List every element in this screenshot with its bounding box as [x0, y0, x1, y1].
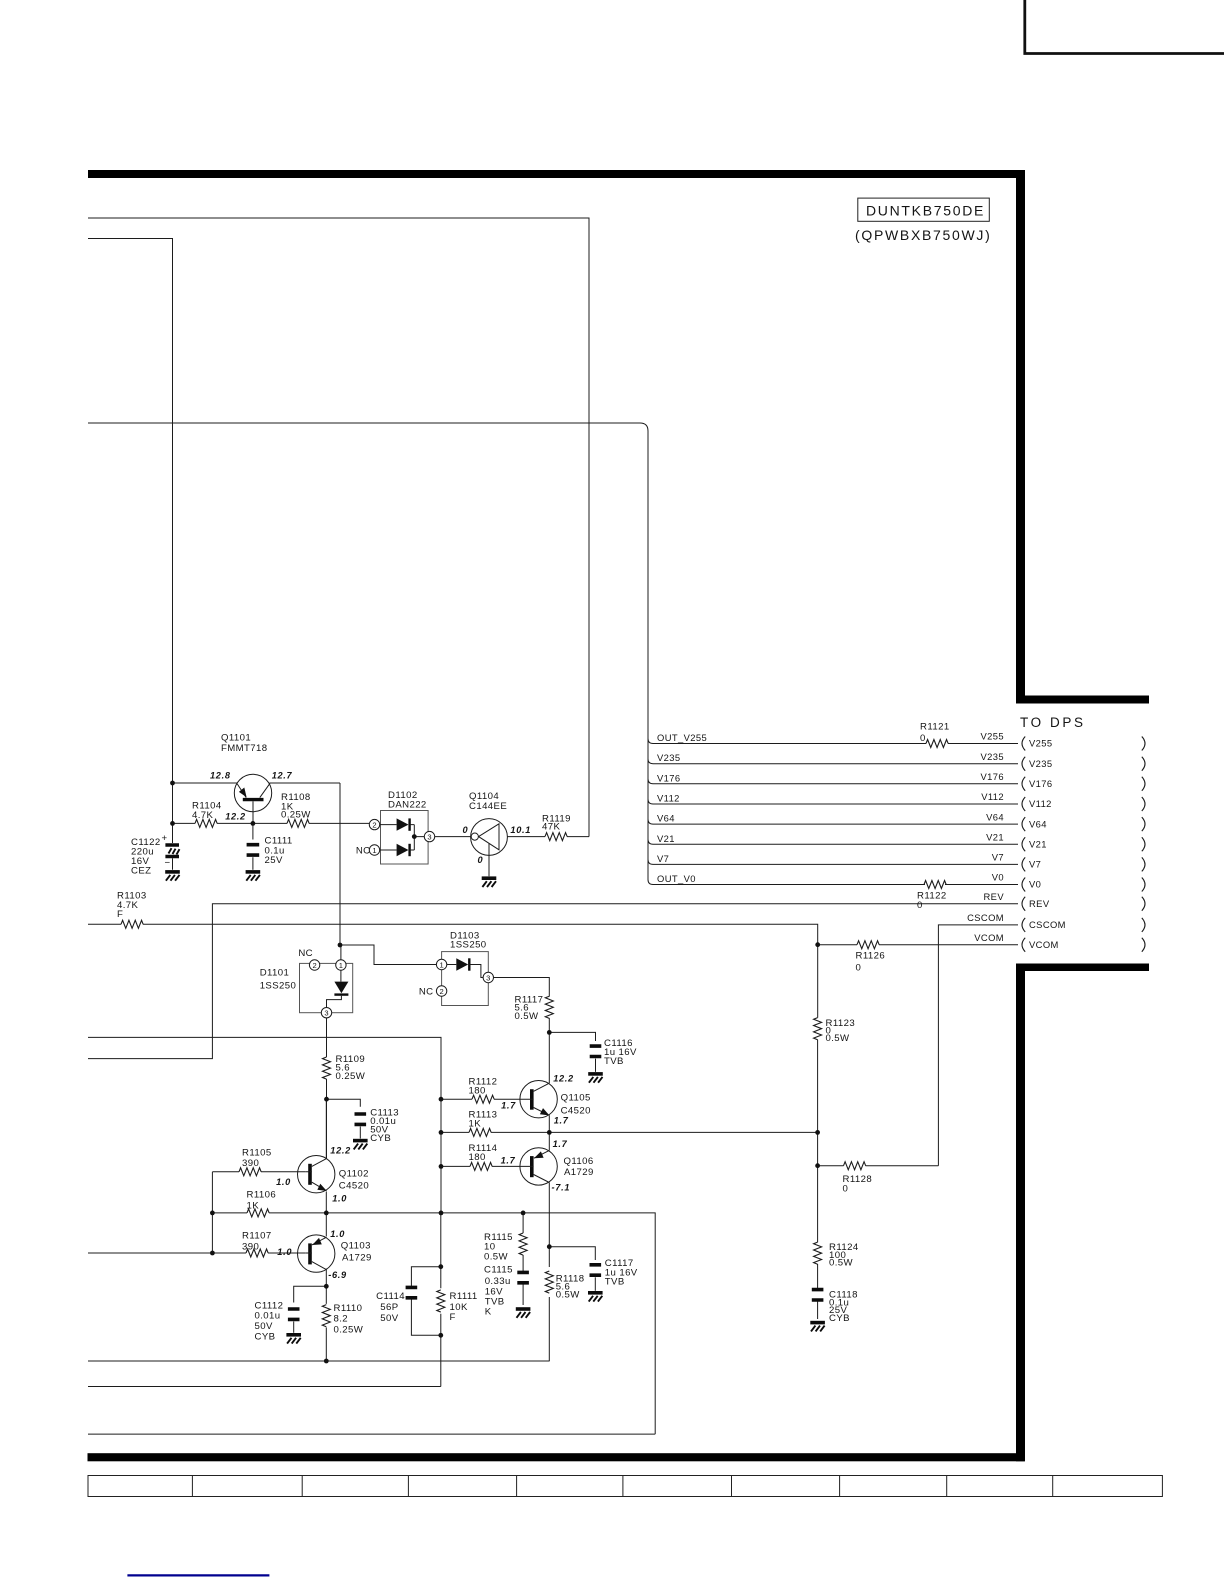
border: bottom thick bar — [88, 1453, 1025, 1461]
svg-text:V21: V21 — [1029, 839, 1047, 850]
svg-text:V112: V112 — [981, 791, 1004, 802]
svg-text:50V: 50V — [380, 1313, 398, 1324]
svg-text:C1114: C1114 — [376, 1291, 405, 1302]
wire C1114/R1111 bottom node — [411, 1298, 440, 1387]
border: top thick bar — [88, 170, 1025, 178]
svg-text:3: 3 — [486, 973, 490, 982]
resistor R1110 — [322, 1303, 363, 1336]
svg-text:0: 0 — [920, 733, 926, 744]
connector pin V21 — [1022, 837, 1145, 851]
resistor R1117 — [515, 995, 554, 1023]
ground (C1122) — [165, 872, 180, 881]
resistor R1105 — [239, 1148, 272, 1176]
svg-text:2: 2 — [312, 961, 316, 970]
svg-text:CYB: CYB — [255, 1332, 276, 1343]
wire Q1105 emitter junction — [548, 1115, 550, 1132]
ground (C1111) — [246, 872, 261, 881]
capacitor C1112 — [255, 1301, 300, 1343]
svg-text:Q1105: Q1105 — [561, 1093, 591, 1104]
wire D1101 pin1 stub — [340, 945, 342, 960]
junction: R1110 bottom node — [324, 1359, 329, 1364]
svg-text:R1107: R1107 — [242, 1231, 272, 1242]
svg-text:V0: V0 — [992, 872, 1004, 883]
junction: R1111 top node — [439, 1211, 444, 1216]
resistor R1107 — [242, 1231, 272, 1258]
svg-text:V21: V21 — [986, 832, 1004, 843]
svg-text:0.33u: 0.33u — [485, 1276, 511, 1287]
junction: R1109/C1113 node — [324, 1097, 329, 1102]
svg-text:0.5W: 0.5W — [826, 1033, 851, 1044]
svg-text:F: F — [450, 1312, 456, 1323]
wire node through R1118 to bottom rail — [548, 1247, 550, 1361]
svg-text:12.8: 12.8 — [210, 771, 231, 781]
svg-text:+: + — [161, 833, 167, 844]
svg-text:OUT_V0: OUT_V0 — [657, 873, 696, 884]
wire Q1106 collector drop — [548, 1183, 550, 1247]
wire R1106 long row — [212, 1213, 655, 1434]
svg-text:NC: NC — [419, 987, 434, 998]
diode D1102 (DAN222 dual) — [356, 790, 435, 864]
svg-text:0.25W: 0.25W — [334, 1325, 364, 1336]
wire R1113 long row to right rail — [441, 1131, 818, 1133]
svg-text:V0: V0 — [1029, 879, 1041, 890]
connector pin CSCOM — [1022, 918, 1145, 932]
svg-text:R1105: R1105 — [242, 1148, 272, 1159]
svg-text:V7: V7 — [657, 853, 669, 864]
svg-text:1.0: 1.0 — [330, 1229, 345, 1239]
svg-text:0: 0 — [478, 855, 484, 865]
svg-text:1.7: 1.7 — [554, 1116, 569, 1126]
svg-text:R1110: R1110 — [334, 1303, 363, 1314]
resistor R1119 — [542, 814, 571, 841]
ground (C1117) — [588, 1293, 603, 1302]
svg-text:R1106: R1106 — [247, 1190, 277, 1201]
svg-text:3: 3 — [427, 832, 431, 841]
wire V0 to connector after R1122 — [945, 884, 1018, 886]
resistor R1108 — [281, 792, 311, 827]
resistor R1114 — [469, 1143, 498, 1170]
capacitor C1116 — [590, 1038, 637, 1072]
svg-text:1.7: 1.7 — [501, 1101, 516, 1111]
resistor R1128 — [843, 1162, 873, 1195]
footer revision table — [88, 1476, 1162, 1497]
resistor R1103 — [117, 891, 147, 929]
svg-text:8.2: 8.2 — [334, 1314, 349, 1325]
svg-text:V176: V176 — [1029, 778, 1053, 789]
connector pin REV — [1022, 897, 1145, 911]
svg-text:REV: REV — [1029, 898, 1050, 909]
svg-text:1SS250: 1SS250 — [260, 981, 297, 992]
wire CSCOM/R1103 line to VCOM node — [88, 924, 818, 944]
ground (C1118) — [810, 1323, 825, 1332]
svg-text:56P: 56P — [380, 1302, 398, 1313]
svg-text:F: F — [117, 909, 123, 920]
wire: top feedback line (R1119 output to left edge) — [88, 218, 589, 837]
junction: C1114 top node — [438, 1264, 443, 1269]
wire D1101 pin3 to R1109 — [326, 1018, 328, 1057]
wire Q1106 emitter junction — [548, 1132, 550, 1150]
capacitor C1114 — [376, 1287, 417, 1324]
junction: R1114 left node — [439, 1164, 444, 1169]
junction: R1113 left node — [439, 1130, 444, 1135]
connector pin V7 — [1022, 857, 1145, 871]
wire R1105 row — [212, 1171, 305, 1173]
wire V176 branch — [653, 783, 1018, 785]
svg-text:A1729: A1729 — [564, 1167, 594, 1178]
svg-text:TVB: TVB — [604, 1056, 624, 1067]
svg-text:V64: V64 — [986, 811, 1004, 822]
connector pin V64 — [1022, 817, 1145, 831]
resistor R1111 — [437, 1290, 478, 1323]
svg-text:2: 2 — [439, 987, 443, 996]
transistor Q1106 (A1729 PNP) — [520, 1148, 594, 1185]
transistor Q1104 (C144EE) — [435, 791, 589, 876]
svg-text:NC: NC — [298, 948, 313, 959]
svg-text:12.2: 12.2 — [225, 811, 246, 821]
svg-text:C144EE: C144EE — [469, 801, 507, 812]
svg-text:CSCOM: CSCOM — [967, 912, 1004, 923]
svg-text:0.25W: 0.25W — [281, 810, 311, 821]
connector pin V112 — [1022, 797, 1145, 811]
transistor Q1103 (A1729 PNP) — [298, 1235, 372, 1272]
svg-text:1: 1 — [372, 846, 376, 855]
wire R1117 node to C1116 — [549, 1032, 595, 1041]
wire right rail VCOM node to R1123 — [817, 945, 819, 1319]
border: right thick vertical upper — [1016, 170, 1025, 704]
svg-text:0: 0 — [917, 900, 923, 911]
svg-text:3: 3 — [324, 1009, 328, 1018]
junction: Q1103 collector node — [324, 1284, 329, 1289]
border: thick stub below connector — [1016, 964, 1149, 972]
resistor R1106 — [247, 1190, 277, 1217]
connector pin V0 — [1022, 878, 1145, 892]
svg-text:1.0: 1.0 — [277, 1247, 292, 1257]
svg-text:V112: V112 — [1029, 798, 1052, 809]
wire VCOM line — [818, 944, 1018, 946]
junction: right rail R1113 node — [815, 1130, 820, 1135]
svg-text:FMMT718: FMMT718 — [221, 743, 268, 754]
svg-text:-6.9: -6.9 — [328, 1270, 347, 1280]
wire bus: left input to connector branches — [88, 423, 925, 885]
svg-text:VCOM: VCOM — [974, 932, 1004, 943]
svg-text:TVB: TVB — [605, 1277, 625, 1288]
svg-text:0.5W: 0.5W — [515, 1011, 540, 1022]
svg-text:V255: V255 — [981, 731, 1005, 742]
wire CSCOM pin stub — [938, 925, 1018, 1166]
junction: D1102 common cathode — [412, 834, 417, 839]
svg-text:1.0: 1.0 — [276, 1177, 291, 1187]
wire Q1103 collector node — [325, 1269, 327, 1287]
svg-text:K: K — [485, 1307, 492, 1318]
svg-text:1: 1 — [439, 960, 443, 969]
resistor R1104 — [192, 801, 222, 828]
wire V255 branch — [653, 743, 1018, 745]
svg-text:4.7K: 4.7K — [192, 810, 214, 821]
wire node down to Q1102 collector — [326, 1099, 328, 1158]
svg-text:Q1106: Q1106 — [564, 1156, 594, 1167]
wire jog to D1103 pin1 — [340, 945, 436, 965]
footer blue underline — [127, 1574, 269, 1576]
title box DUNTKB750DE — [858, 198, 990, 221]
capacitor C1122 (electrolytic) — [131, 833, 180, 877]
wire C1114/R1111 top node — [411, 1213, 440, 1288]
svg-text:2: 2 — [372, 820, 376, 829]
svg-text:180: 180 — [469, 1152, 486, 1163]
svg-text:Q1102: Q1102 — [339, 1169, 369, 1180]
ground (C1112) — [286, 1335, 301, 1344]
junction: D1103 feed node — [338, 943, 343, 948]
diode D1101 (1SS250) — [260, 948, 353, 1018]
svg-text:0: 0 — [463, 825, 469, 835]
svg-text:12.2: 12.2 — [553, 1074, 574, 1084]
svg-text:DUNTKB750DE: DUNTKB750DE — [866, 203, 985, 219]
svg-text:0.5W: 0.5W — [556, 1290, 581, 1301]
svg-text:CSCOM: CSCOM — [1029, 919, 1066, 930]
svg-text:TO DPS: TO DPS — [1020, 715, 1086, 730]
junction: R1112 left node — [439, 1097, 444, 1102]
svg-text:Q1103: Q1103 — [341, 1241, 371, 1252]
sheet corner box top-right — [1025, 0, 1224, 54]
ground (C1116) — [588, 1074, 603, 1083]
junction: Q1106 collector node — [547, 1244, 552, 1249]
svg-text:0.5W: 0.5W — [484, 1252, 509, 1263]
wire V64 branch — [653, 823, 1018, 825]
svg-text:CYB: CYB — [829, 1313, 850, 1324]
svg-text:1SS250: 1SS250 — [450, 940, 487, 951]
svg-text:R1121: R1121 — [920, 722, 950, 733]
wire R1115/C1115 column — [522, 1213, 524, 1305]
resistor R1109 — [323, 1054, 366, 1082]
svg-text:12.2: 12.2 — [330, 1145, 351, 1155]
junction: Q1102 emitter node — [324, 1211, 329, 1216]
wire R1112 row — [441, 1098, 530, 1100]
wire V21 branch — [653, 843, 1018, 845]
resistor R1121 — [920, 722, 950, 748]
svg-text:12.7: 12.7 — [272, 771, 293, 781]
svg-text:V176: V176 — [981, 771, 1005, 782]
resistor R1118 — [545, 1271, 584, 1301]
transistor Q1102 (C4520 NPN) — [298, 1156, 370, 1193]
wire R1109 bottom to node — [326, 1079, 328, 1099]
svg-text:V235: V235 — [981, 751, 1005, 762]
svg-text:V235: V235 — [657, 752, 681, 763]
wire bottom rail 1 (to R1118) — [88, 1360, 550, 1362]
capacitor C1118 — [812, 1290, 858, 1325]
svg-text:NC: NC — [356, 846, 371, 857]
wire Q1102 collector riser — [325, 1099, 327, 1158]
resistor R1122 — [917, 881, 947, 912]
svg-text:CEZ: CEZ — [131, 866, 151, 877]
svg-text:V64: V64 — [657, 813, 675, 824]
connector pin V235 — [1022, 757, 1145, 771]
svg-text:OUT_V255: OUT_V255 — [657, 732, 707, 743]
svg-text:V235: V235 — [1029, 758, 1053, 769]
wire R1105/R1106/R1107 left rail — [211, 1172, 213, 1253]
border: thick stub above connector — [1016, 696, 1149, 704]
junction: R1115 top node — [521, 1211, 526, 1216]
svg-text:0.5W: 0.5W — [829, 1258, 854, 1269]
wire bottom rail 3 (to R1106 row) — [88, 1433, 655, 1435]
border: right thick vertical lower — [1016, 964, 1025, 1462]
wire Q1101 collector drop to D1101/D1103 — [339, 783, 341, 945]
ground (C1115) — [516, 1309, 531, 1318]
svg-text:10.1: 10.1 — [510, 825, 531, 835]
svg-text:C1115: C1115 — [484, 1265, 513, 1276]
svg-text:1K: 1K — [469, 1119, 482, 1130]
ground (Q1104) — [482, 878, 497, 887]
svg-text:1.0: 1.0 — [332, 1194, 347, 1204]
junction: VCOM node — [815, 942, 820, 947]
svg-text:CYB: CYB — [370, 1133, 391, 1144]
svg-text:180: 180 — [469, 1086, 486, 1097]
resistor R1123 — [814, 1018, 855, 1044]
junction: C1114 bottom node — [438, 1333, 443, 1338]
svg-text:V64: V64 — [1029, 818, 1047, 829]
wire D1103 pin3 to R1117 — [494, 978, 550, 1033]
svg-text:V255: V255 — [1029, 738, 1053, 749]
junction: Q1105/Q1106 emitter node — [547, 1130, 552, 1135]
svg-text:R1126: R1126 — [856, 951, 886, 962]
wire R1114 row — [441, 1165, 530, 1167]
resistor R1113 — [469, 1110, 498, 1137]
svg-text:V7: V7 — [1029, 859, 1041, 870]
resistor R1124 — [814, 1242, 859, 1269]
wire Q1102 emitter drop — [325, 1192, 327, 1214]
wire: left input to Q1101 collector rail — [88, 239, 173, 844]
svg-text:390: 390 — [242, 1242, 259, 1253]
svg-text:R1111: R1111 — [450, 1291, 478, 1302]
junction: R1117/C1116 node — [547, 1030, 552, 1035]
svg-text:V176: V176 — [657, 772, 681, 783]
connector pin VCOM — [1022, 938, 1145, 952]
svg-text:390: 390 — [242, 1158, 259, 1169]
wire node to C1112 stub — [294, 1286, 327, 1302]
svg-text:1.7: 1.7 — [553, 1139, 568, 1149]
svg-text:0: 0 — [843, 1184, 849, 1195]
wire bus branch arcs — [648, 739, 653, 865]
svg-text:V21: V21 — [657, 833, 675, 844]
capacitor C1115 — [484, 1265, 529, 1318]
connector pin V255 — [1022, 737, 1145, 751]
connector pin V176 — [1022, 777, 1145, 791]
wire R1117 node to Q1105 collector — [548, 1032, 550, 1083]
svg-text:0.25W: 0.25W — [336, 1071, 366, 1082]
transistor Q1101 (FMMT718 PNP) — [173, 733, 341, 824]
wire node to C1113 stub — [327, 1099, 361, 1107]
svg-text:1.7: 1.7 — [501, 1156, 516, 1166]
transistor Q1105 (C4520 NPN) — [520, 1081, 591, 1118]
svg-text:C4520: C4520 — [339, 1181, 369, 1192]
svg-text:1K: 1K — [247, 1201, 260, 1212]
svg-text:-7.1: -7.1 — [552, 1182, 571, 1192]
wire bottom rail 2 (to R1111) — [88, 1386, 441, 1388]
wire V235 branch — [653, 763, 1018, 765]
junction: R1128 node — [815, 1163, 820, 1168]
junction: R1107 rail node — [210, 1251, 215, 1256]
wire V7 branch — [653, 863, 1018, 865]
svg-text:47K: 47K — [542, 822, 560, 833]
resistor R1115 — [484, 1232, 527, 1263]
wire Q1103 emitter riser — [325, 1213, 327, 1236]
junction: R1104 node — [170, 821, 175, 826]
svg-text:1: 1 — [339, 961, 343, 970]
svg-text:0.01u: 0.01u — [255, 1311, 281, 1322]
svg-text:VCOM: VCOM — [1029, 939, 1059, 950]
resistor R1112 — [469, 1077, 498, 1104]
svg-text:DAN222: DAN222 — [388, 800, 427, 811]
wire node through R1110 to bottom rail — [325, 1286, 327, 1361]
svg-text:A1729: A1729 — [342, 1253, 372, 1264]
wire R1107 row from left edge — [88, 1252, 306, 1254]
capacitor C1117 — [590, 1258, 638, 1291]
svg-text:D1101: D1101 — [260, 968, 290, 979]
svg-text:V112: V112 — [657, 793, 680, 804]
wire REV line — [88, 904, 1018, 1059]
svg-text:V7: V7 — [992, 852, 1004, 863]
svg-text:50V: 50V — [255, 1321, 273, 1332]
junction: R1105 rail node — [210, 1211, 215, 1216]
svg-text:(QPWBXB750WJ): (QPWBXB750WJ) — [855, 227, 991, 243]
svg-text:0: 0 — [856, 963, 862, 974]
diode D1103 (1SS250) — [419, 931, 494, 1006]
junction: Q1101 base node — [251, 821, 256, 826]
wire R1104/R1108 row (Q1101 base bias) — [173, 822, 370, 824]
capacitor C1113 — [355, 1108, 400, 1145]
capacitor C1111 — [247, 823, 293, 869]
wire node to C1117 stub — [549, 1247, 595, 1260]
resistor R1126 — [856, 941, 886, 974]
wire R1128 row — [818, 1165, 939, 1167]
ground (C1113) — [353, 1141, 368, 1150]
wire V112 branch — [653, 803, 1018, 805]
svg-text:REV: REV — [984, 891, 1005, 902]
junction: Q1101 emitter rail — [170, 781, 175, 786]
svg-text:−: − — [164, 858, 170, 869]
svg-text:25V: 25V — [265, 855, 283, 866]
wire left input to R1112/R1113/R1114 column — [88, 1037, 441, 1213]
